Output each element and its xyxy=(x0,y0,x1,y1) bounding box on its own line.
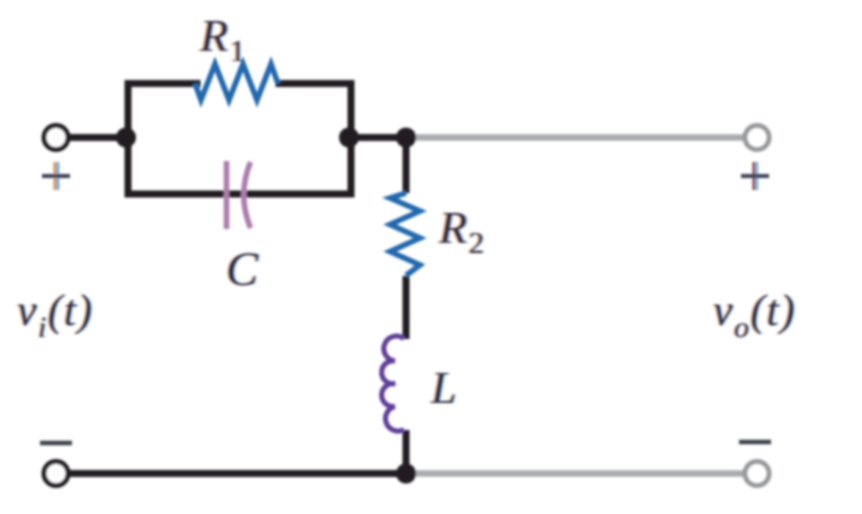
wire: parallel box bottom wire through capacitor xyxy=(128,191,351,198)
label vi(t) xyxy=(15,286,95,344)
resistor R2 zigzag xyxy=(390,193,420,276)
node B: junction dot top of R2 branch xyxy=(396,128,416,148)
resistor R1 zigzag xyxy=(195,64,278,100)
terminal: output + terminal xyxy=(745,126,769,150)
svg-text:C: C xyxy=(226,243,259,296)
wire: parallel box left and top-left segment xyxy=(128,84,197,195)
wire: parallel box top-right segment and right side xyxy=(279,84,351,195)
inductor L coil xyxy=(382,336,404,431)
node: junction dot bottom xyxy=(396,464,416,484)
terminal: input - terminal xyxy=(44,462,68,486)
wire: bottom return wire xyxy=(70,470,409,477)
label C xyxy=(224,243,260,296)
terminal: input + terminal xyxy=(44,126,68,150)
node: junction dot at box left xyxy=(116,128,136,148)
label vo(t) xyxy=(711,286,797,344)
svg-text:vi(t): vi(t) xyxy=(17,286,93,344)
wire: vertical from node B to R2 xyxy=(403,138,410,194)
capacitor C left plate xyxy=(224,161,230,229)
label L xyxy=(428,362,458,413)
wire: bottom output gray wire xyxy=(406,470,744,477)
svg-text:R1: R1 xyxy=(199,10,245,68)
plus sign at output xyxy=(741,162,769,190)
plus sign at input xyxy=(42,162,70,190)
label R1 xyxy=(197,10,247,68)
wire: box right junction to node B xyxy=(351,134,410,141)
wire: between R2 and L xyxy=(403,276,410,339)
svg-text:L: L xyxy=(430,362,457,413)
svg-text:R2: R2 xyxy=(438,202,484,260)
node: junction dot at box right xyxy=(339,128,359,148)
wire: top output gray wire xyxy=(406,134,744,141)
wire: input top wire to box left junction xyxy=(70,134,128,141)
minus sign at input xyxy=(40,441,72,446)
wire: below L to bottom node xyxy=(403,430,410,474)
capacitor C curved plate xyxy=(244,162,251,228)
minus sign at output xyxy=(739,440,771,445)
svg-text:vo(t): vo(t) xyxy=(713,286,796,344)
terminal: output - terminal xyxy=(745,462,769,486)
label R2 xyxy=(436,202,486,260)
